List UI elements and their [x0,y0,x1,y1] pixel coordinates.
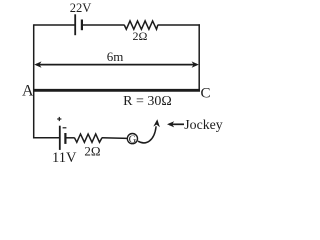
svg-text:22V: 22V [70,1,92,15]
galvanometer G [127,134,137,146]
arrow pointing to jockey [167,121,184,127]
svg-text:6m: 6m [107,49,124,64]
wire: top horizontal left segment [34,24,75,26]
potentiometer wire A-C (R = 30 ohm) [33,89,200,92]
resistor R_bottom zigzag [75,134,103,142]
svg-text:A: A [22,83,34,100]
battery B2 plus sign [57,117,61,121]
resistor R_top zigzag [124,21,158,29]
wire: battery to bottom resistor [65,137,74,139]
wire: bottom left segment [33,137,59,139]
dimension arrow 6m [34,61,199,67]
wire: top horizontal middle segment [83,24,125,26]
svg-text:2Ω: 2Ω [133,29,148,43]
battery B1 22V plates [75,14,82,35]
wire: bottom resistor to galvanometer [102,137,128,140]
wire: top horizontal right segment [158,24,200,26]
wire: left vertical [33,24,35,138]
battery B2 minus sign [63,127,67,129]
svg-text:Jockey: Jockey [184,117,222,132]
svg-text:2Ω: 2Ω [84,144,100,159]
svg-text:11V: 11V [52,150,77,166]
svg-text:R = 30Ω: R = 30Ω [123,94,172,109]
battery B2 11V plates [60,126,66,150]
jockey curved arrow [138,119,160,143]
svg-text:G: G [129,134,137,145]
svg-text:C: C [201,86,211,102]
wire: right vertical [198,24,200,91]
